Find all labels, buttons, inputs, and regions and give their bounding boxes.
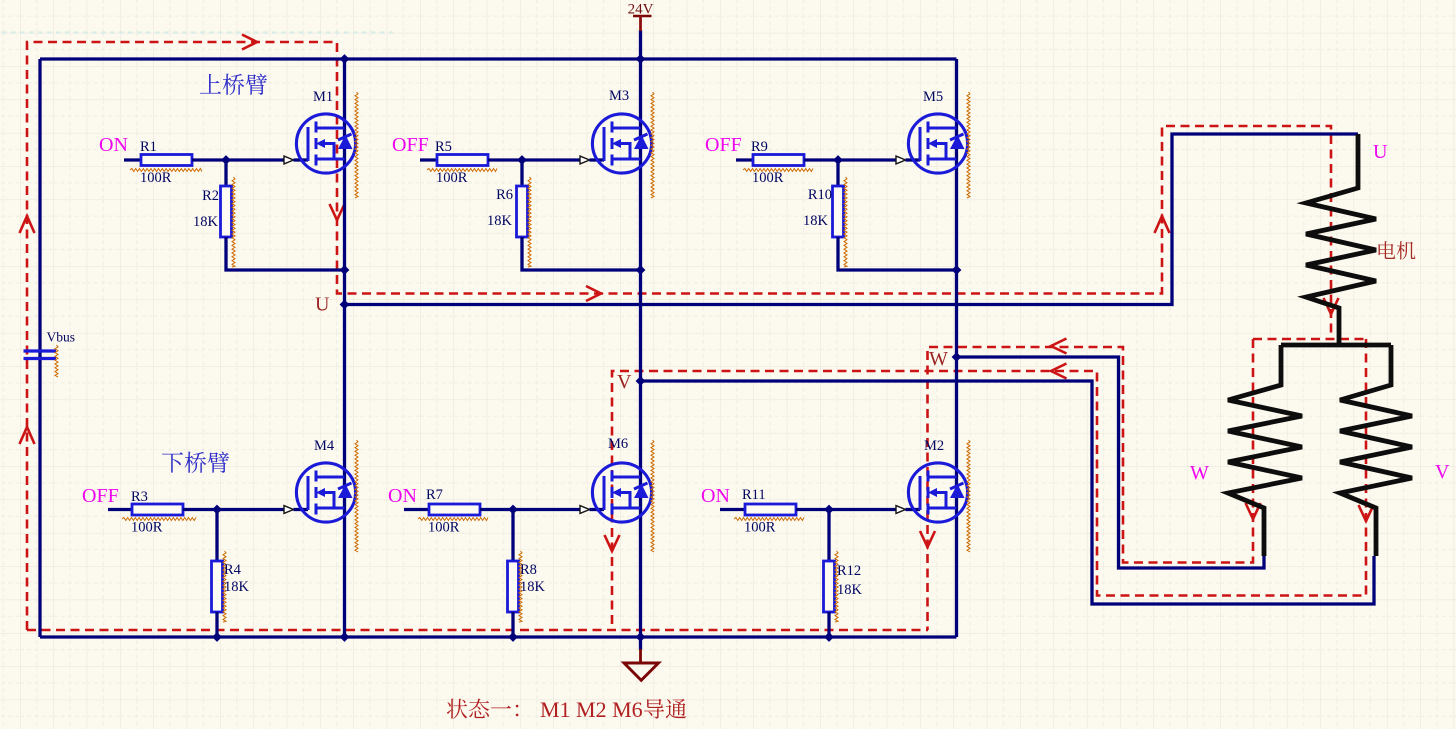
wire gate lead with input arrowhead bbox=[217, 506, 308, 514]
arrow left on V return dashed bbox=[1051, 364, 1067, 379]
junction ground bus M6 source bbox=[636, 632, 646, 642]
junction ground bus R4 bbox=[212, 632, 222, 642]
junction gate node M5 bbox=[833, 155, 843, 165]
node W bbox=[952, 352, 962, 362]
error-marker squiggles bbox=[55, 92, 970, 622]
junction gate node M6 bbox=[508, 505, 518, 515]
svg-text:ON: ON bbox=[99, 134, 128, 156]
resistor R10 18K gate pulldown bbox=[833, 160, 957, 270]
arrow down through W winding bbox=[1246, 503, 1261, 519]
wire phase leg M1/M4 drain-source column bbox=[343, 59, 346, 637]
svg-text:18K: 18K bbox=[487, 213, 513, 229]
resistor R3 100R gate series bbox=[108, 504, 217, 515]
svg-text:W: W bbox=[929, 348, 948, 370]
svg-text:R1: R1 bbox=[140, 139, 157, 155]
transistor M6 N-MOSFET bbox=[592, 463, 651, 522]
svg-text:18K: 18K bbox=[803, 213, 829, 229]
junction ground bus R12 bbox=[824, 632, 834, 642]
svg-text:OFF: OFF bbox=[392, 134, 429, 156]
junction gate node M3 bbox=[517, 155, 527, 165]
transistor M1 N-MOSFET bbox=[296, 114, 355, 173]
inductor motor winding U bbox=[1306, 134, 1376, 345]
label lower bridge arm 下桥臂 bbox=[162, 452, 229, 473]
transistor M4 N-MOSFET bbox=[296, 463, 355, 522]
resistor R4 18K gate pulldown bbox=[212, 510, 223, 638]
svg-text:R2: R2 bbox=[202, 188, 219, 204]
svg-text:ON: ON bbox=[701, 485, 730, 507]
arrow down through V winding bbox=[1359, 505, 1374, 521]
svg-text:18K: 18K bbox=[520, 579, 546, 595]
wire current-path dashed: W phase return through M2 bbox=[928, 339, 1254, 630]
wire phase leg M3/M6 drain-source column bbox=[639, 59, 642, 637]
resistor R6 18K gate pulldown bbox=[517, 160, 641, 270]
svg-text:100R: 100R bbox=[131, 520, 163, 536]
transistor M2 N-MOSFET bbox=[908, 463, 967, 522]
junction ground bus R8 bbox=[508, 632, 518, 642]
svg-text:100R: 100R bbox=[428, 520, 460, 536]
svg-text:R3: R3 bbox=[131, 489, 148, 505]
resistor R11 100R gate series bbox=[720, 504, 829, 515]
svg-text:R11: R11 bbox=[742, 487, 766, 503]
wire W phase output to motor bbox=[957, 357, 1265, 568]
resistor R12 18K gate pulldown bbox=[824, 510, 835, 638]
svg-text:ON: ON bbox=[388, 485, 417, 507]
label upper bridge arm 上桥臂 bbox=[200, 74, 267, 95]
svg-text:M2: M2 bbox=[924, 438, 944, 454]
wire ground symbol stem bbox=[639, 637, 642, 650]
junction R6 to source bbox=[636, 265, 646, 275]
wire gate lead with input arrowhead bbox=[513, 506, 604, 514]
svg-text:M1 M2 M6: M1 M2 M6 bbox=[540, 697, 643, 722]
wire gate lead with input arrowhead bbox=[838, 156, 920, 164]
label motor 电机 bbox=[1379, 241, 1416, 259]
wire 24V top bus bbox=[40, 57, 957, 60]
resistor R7 100R gate series bbox=[404, 504, 513, 515]
svg-text:V: V bbox=[1435, 461, 1450, 483]
svg-text:R5: R5 bbox=[435, 139, 452, 155]
resistor R2 18K gate pulldown bbox=[221, 160, 345, 270]
wire U phase output to motor bbox=[345, 134, 1359, 305]
junction R2 to source bbox=[340, 265, 350, 275]
junction R10 to source bbox=[952, 265, 962, 275]
wire left rail (Vbus branch) bbox=[38, 59, 41, 637]
arrow down through M1 bbox=[330, 204, 345, 220]
svg-text:M6: M6 bbox=[608, 436, 628, 452]
junction ground bus M4 source bbox=[340, 632, 350, 642]
label state caption 状态一 bbox=[447, 699, 519, 719]
svg-text:18K: 18K bbox=[837, 582, 863, 598]
arrow down through M6 bbox=[605, 535, 620, 551]
power port 24V bar bbox=[633, 16, 652, 31]
svg-text:R9: R9 bbox=[751, 139, 768, 155]
svg-text:R4: R4 bbox=[224, 562, 242, 578]
arrow right on top dashed path bbox=[242, 35, 257, 50]
junction gate node M4 bbox=[212, 505, 222, 515]
svg-text:100R: 100R bbox=[752, 170, 784, 186]
svg-text:W: W bbox=[1190, 462, 1209, 484]
svg-text:M4: M4 bbox=[314, 438, 335, 454]
arrow right on U phase dashed bbox=[586, 286, 601, 301]
arrow up on left dashed rail (upper) bbox=[20, 216, 35, 233]
capacitor Vbus bbox=[24, 351, 57, 359]
transistor M3 N-MOSFET bbox=[592, 114, 651, 173]
inductor motor winding V bbox=[1340, 345, 1412, 556]
junction top bus / M1 drain bbox=[340, 54, 350, 64]
resistor R9 100R gate series bbox=[736, 155, 838, 166]
arrow up on left dashed rail (lower) bbox=[20, 427, 35, 444]
svg-text:Vbus: Vbus bbox=[47, 330, 76, 345]
svg-text:OFF: OFF bbox=[705, 134, 742, 156]
node V bbox=[636, 376, 646, 386]
transistor M5 N-MOSFET bbox=[908, 114, 967, 173]
wire current-path dashed: motor winding box top bar bbox=[1253, 338, 1366, 341]
svg-text:M5: M5 bbox=[923, 89, 943, 105]
wire motor star-point bar bbox=[1281, 343, 1391, 348]
faint selection artifact line top-left bbox=[2, 31, 393, 33]
arrow up on U phase dashed riser bbox=[1155, 216, 1170, 233]
wire current-path dashed: V phase return through M6 bbox=[612, 339, 1366, 630]
svg-text:24V: 24V bbox=[628, 2, 654, 18]
svg-text:U: U bbox=[315, 294, 330, 316]
svg-text:18K: 18K bbox=[193, 214, 219, 230]
resistor R1 100R gate series bbox=[124, 155, 226, 166]
svg-text:R6: R6 bbox=[496, 187, 513, 203]
arrow down through M2 bbox=[920, 531, 935, 547]
label state caption 导通 bbox=[644, 699, 686, 719]
svg-text:18K: 18K bbox=[224, 579, 250, 595]
svg-text:U: U bbox=[1373, 141, 1388, 163]
node U bbox=[340, 300, 350, 310]
junction gate node M2 bbox=[824, 505, 834, 515]
resistor R8 18K gate pulldown bbox=[508, 510, 519, 638]
wire V phase output to motor bbox=[641, 381, 1375, 604]
junction top bus / 24V stem bbox=[636, 54, 646, 64]
wire phase leg M5/M2 drain-source column bbox=[955, 59, 958, 637]
svg-text:R12: R12 bbox=[837, 563, 861, 579]
wire current-path dashed: ground return bus bbox=[27, 629, 928, 632]
wire 24V supply stem bbox=[639, 30, 642, 59]
svg-text:M1: M1 bbox=[313, 89, 333, 105]
svg-text:V: V bbox=[617, 371, 632, 393]
svg-text:100R: 100R bbox=[436, 170, 468, 186]
wire current-path dashed loop: left rail, top, through M1, U phase to motor bbox=[27, 42, 1331, 630]
arrow down through U winding bbox=[1324, 298, 1339, 314]
svg-text:100R: 100R bbox=[140, 170, 172, 186]
svg-text:100R: 100R bbox=[744, 520, 776, 536]
wire gate lead with input arrowhead bbox=[829, 506, 920, 514]
ground symbol bbox=[624, 649, 659, 680]
wire gate lead with input arrowhead bbox=[522, 156, 604, 164]
svg-text:R7: R7 bbox=[426, 487, 443, 503]
inductor motor winding W bbox=[1228, 345, 1302, 556]
svg-text:R10: R10 bbox=[808, 187, 832, 203]
svg-text:R8: R8 bbox=[520, 562, 537, 578]
svg-text:OFF: OFF bbox=[82, 485, 119, 507]
junction gate node M1 bbox=[221, 155, 231, 165]
svg-text:M3: M3 bbox=[609, 88, 629, 104]
wire gate lead with input arrowhead bbox=[226, 156, 308, 164]
resistor R5 100R gate series bbox=[420, 155, 522, 166]
arrow left on W return dashed bbox=[1051, 339, 1067, 354]
wire ground bottom bus bbox=[40, 635, 957, 638]
